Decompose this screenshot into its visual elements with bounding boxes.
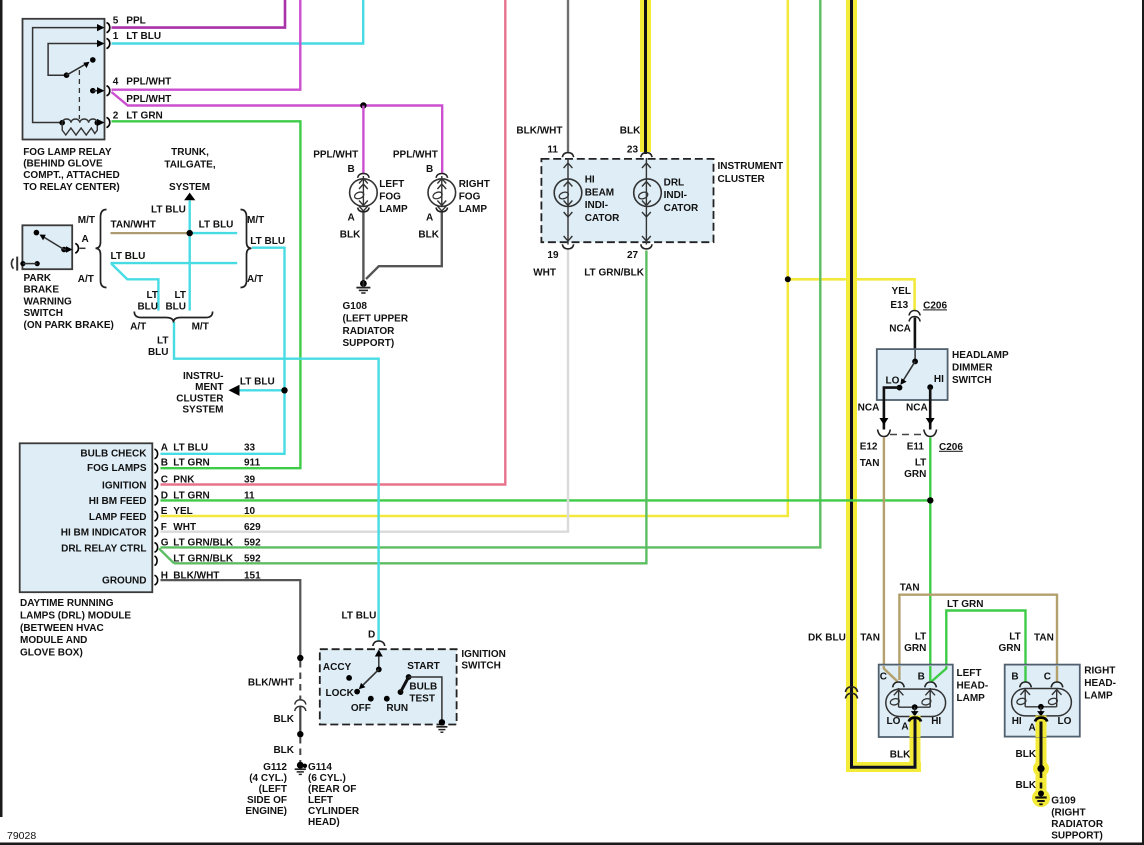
svg-text:629: 629 xyxy=(244,522,261,533)
label HEADLAMP DIMMER SWITCH xyxy=(952,350,1009,386)
ground G109 xyxy=(1035,791,1046,805)
svg-text:PARK: PARK xyxy=(24,273,52,284)
svg-text:LT BLU: LT BLU xyxy=(151,204,186,215)
svg-text:10: 10 xyxy=(244,506,256,517)
wire LT BLU A/T horizontal xyxy=(111,262,238,264)
svg-text:TRUNK,: TRUNK, xyxy=(171,147,209,158)
right headlamp filaments xyxy=(1016,688,1061,717)
arrow to trunk system xyxy=(184,193,195,201)
DRL module left labels xyxy=(61,448,148,586)
label M/T bottom xyxy=(192,322,209,333)
svg-text:YEL: YEL xyxy=(173,506,192,517)
svg-text:(RIGHT: (RIGHT xyxy=(1051,807,1085,818)
ignition switch box xyxy=(320,649,457,724)
label RIGHT HEADLAMP xyxy=(1084,666,1116,702)
wire BLK/WHT vertical to cluster pin 11 xyxy=(567,0,569,153)
svg-text:NCA: NCA xyxy=(858,403,880,414)
inline connector DK BLU xyxy=(845,687,857,699)
svg-text:LT GRN: LT GRN xyxy=(947,599,983,610)
svg-text:INDI-: INDI- xyxy=(585,200,608,211)
svg-text:(LEFT UPPER: (LEFT UPPER xyxy=(343,314,409,325)
svg-text:592: 592 xyxy=(244,538,261,549)
svg-text:OFF: OFF xyxy=(351,703,371,714)
wire BLK thick to cluster pin 23 xyxy=(644,0,647,154)
svg-text:A: A xyxy=(348,212,355,223)
svg-text:TAN/WHT: TAN/WHT xyxy=(111,219,156,230)
svg-text:79028: 79028 xyxy=(7,830,36,842)
svg-text:YEL: YEL xyxy=(892,286,911,297)
svg-text:HI: HI xyxy=(1012,716,1022,727)
svg-text:GROUND: GROUND xyxy=(102,576,146,587)
svg-text:(LEFT: (LEFT xyxy=(259,784,287,795)
DRL module box xyxy=(20,443,153,592)
wire F WHT 629 xyxy=(161,250,569,532)
svg-text:4: 4 xyxy=(113,77,119,88)
svg-text:LOCK: LOCK xyxy=(326,688,355,699)
svg-text:GRN: GRN xyxy=(904,469,926,480)
label BLK right upper xyxy=(1016,749,1037,760)
svg-text:LEFT: LEFT xyxy=(957,668,982,679)
svg-text:RIGHT: RIGHT xyxy=(459,179,490,190)
lamp HI BEAM INDICATOR xyxy=(554,158,582,245)
wire LT GRN to right headlamp xyxy=(932,611,1026,683)
connector C206 E12 arrow xyxy=(878,418,891,437)
svg-text:RADIATOR: RADIATOR xyxy=(343,326,396,337)
svg-text:SWITCH: SWITCH xyxy=(952,375,991,386)
right fog lamp xyxy=(428,174,456,212)
inline connector C206 E13 xyxy=(909,311,920,322)
left brace M/T A/T xyxy=(96,210,107,288)
svg-text:D: D xyxy=(368,629,375,640)
svg-text:A: A xyxy=(1029,722,1036,733)
svg-text:BLK: BLK xyxy=(340,229,361,240)
label TAN/WHT xyxy=(111,219,156,230)
label IGNITION SWITCH xyxy=(461,649,505,672)
ground G108 xyxy=(356,280,370,293)
page right border xyxy=(1142,0,1144,845)
svg-text:HEADLAMP: HEADLAMP xyxy=(952,350,1009,361)
wire PPL/WHT pin 4 to fog lamps xyxy=(112,92,443,174)
junction dot YEL xyxy=(785,276,791,282)
svg-text:BRAKE: BRAKE xyxy=(24,285,60,296)
svg-text:SYSTEM: SYSTEM xyxy=(169,182,210,193)
svg-text:LAMP FEED: LAMP FEED xyxy=(89,512,147,523)
svg-text:INSTRU-: INSTRU- xyxy=(183,371,224,382)
junction dot BLK/WHT xyxy=(297,655,303,661)
svg-text:DRL RELAY CTRL: DRL RELAY CTRL xyxy=(61,543,146,554)
svg-text:CLUSTER: CLUSTER xyxy=(718,174,766,185)
svg-text:B: B xyxy=(426,164,433,175)
wire LT GRN/BLK 592 to pin 27 xyxy=(159,251,646,564)
label HI A LO right headlamp xyxy=(1012,716,1072,733)
relay pin arrows and connector arcs xyxy=(97,23,110,128)
label DK BLU and TAN xyxy=(808,632,880,643)
svg-text:C: C xyxy=(161,475,168,486)
svg-text:E: E xyxy=(161,506,168,517)
right headlamp pin A arc xyxy=(1035,718,1047,722)
svg-text:33: 33 xyxy=(244,443,256,454)
wire NCA to dimmer switch xyxy=(914,318,917,351)
svg-text:CYLINDER: CYLINDER xyxy=(308,806,360,817)
svg-text:TAN: TAN xyxy=(860,632,880,643)
label LT BLU D xyxy=(342,610,377,640)
svg-text:B: B xyxy=(1011,672,1018,683)
svg-text:B: B xyxy=(348,164,355,175)
wire LT GRN from E11 xyxy=(929,438,931,682)
connector C206 E11 arrow xyxy=(924,418,937,437)
svg-text:A: A xyxy=(82,234,89,245)
svg-text:BLK: BLK xyxy=(273,714,294,725)
label A xyxy=(82,234,89,245)
relay coil with resistor xyxy=(59,119,100,135)
right headlamp box xyxy=(1005,665,1080,737)
junction dot LT BLU xyxy=(229,385,288,396)
svg-text:(BETWEEN HVAC: (BETWEEN HVAC xyxy=(20,623,104,634)
label pin 2 LT GRN xyxy=(113,110,163,121)
label G112 caption xyxy=(245,762,287,817)
relay pin 4 internal stub xyxy=(90,88,99,94)
svg-text:H: H xyxy=(161,570,168,581)
svg-text:IGNITION: IGNITION xyxy=(102,480,146,491)
label BLK/WHT xyxy=(248,678,294,689)
DRL module pin row labels xyxy=(161,443,261,582)
wire LT BLU to instrument cluster system arrow xyxy=(238,389,285,391)
svg-text:A: A xyxy=(161,443,168,454)
svg-text:SWITCH: SWITCH xyxy=(24,308,63,319)
svg-text:LT: LT xyxy=(147,290,158,301)
svg-text:WHT: WHT xyxy=(173,522,196,533)
label TAN right headlamp xyxy=(1034,632,1054,643)
label TAN below E12 xyxy=(860,458,880,469)
wire highlight: BLK instrument cluster feed xyxy=(640,0,651,152)
label park brake caption xyxy=(24,273,114,331)
wire LT BLU M/T right xyxy=(190,232,238,234)
svg-text:SUPPORT): SUPPORT) xyxy=(1051,831,1103,842)
svg-text:PNK: PNK xyxy=(173,475,195,486)
left headlamp box xyxy=(879,665,953,737)
wire H BLK/WHT 151 xyxy=(161,580,301,658)
svg-text:LT BLU: LT BLU xyxy=(111,251,146,262)
instrument cluster box xyxy=(541,159,713,242)
label BLK lower xyxy=(273,745,294,756)
inline connector BLK/WHT-BLK xyxy=(295,700,306,711)
svg-text:ENGINE): ENGINE) xyxy=(245,806,287,817)
label M/T right xyxy=(247,215,264,226)
relay K1 fog lamp relay box xyxy=(23,19,105,140)
svg-text:1: 1 xyxy=(113,31,119,42)
svg-text:BLU: BLU xyxy=(165,302,186,313)
lamp DRL INDICATOR xyxy=(634,158,662,245)
svg-text:RADIATOR: RADIATOR xyxy=(1051,819,1104,830)
svg-text:(4 CYL.): (4 CYL.) xyxy=(249,773,287,784)
ignition switch connector arc D xyxy=(373,641,385,646)
svg-text:27: 27 xyxy=(627,250,639,261)
label LEFT HEADLAMP xyxy=(957,668,989,704)
svg-text:LO: LO xyxy=(887,716,901,727)
svg-text:E12: E12 xyxy=(860,441,878,452)
svg-text:PPL: PPL xyxy=(126,15,145,26)
svg-text:DRL: DRL xyxy=(664,177,685,188)
svg-text:HEAD-: HEAD- xyxy=(957,680,989,691)
svg-text:A: A xyxy=(901,722,908,733)
svg-text:BLK: BLK xyxy=(890,750,911,761)
svg-text:CATOR: CATOR xyxy=(664,203,699,214)
svg-text:LT GRN: LT GRN xyxy=(173,491,209,502)
svg-text:SWITCH: SWITCH xyxy=(461,660,500,671)
svg-text:C: C xyxy=(880,672,887,683)
cluster pin arcs top xyxy=(562,153,652,158)
svg-text:C: C xyxy=(1044,672,1051,683)
svg-text:E11: E11 xyxy=(907,441,925,452)
svg-text:LT: LT xyxy=(175,290,186,301)
svg-text:FOG: FOG xyxy=(379,191,401,202)
wire TAN/WHT xyxy=(111,232,190,234)
svg-text:TAN: TAN xyxy=(900,583,920,594)
wire LT BLU pin 1 xyxy=(112,0,364,44)
wire BLK/WHT dashed segment xyxy=(299,661,301,700)
svg-text:BLK/WHT: BLK/WHT xyxy=(248,678,294,689)
svg-text:LT GRN: LT GRN xyxy=(173,458,209,469)
svg-text:C206: C206 xyxy=(923,300,947,311)
label B C right headlamp xyxy=(1011,672,1051,683)
label LO HI dimmer xyxy=(886,374,945,386)
wire dimmer HI output xyxy=(929,387,932,429)
label LT GRN left headlamp xyxy=(904,632,926,654)
svg-text:151: 151 xyxy=(244,570,261,581)
svg-text:DIMMER: DIMMER xyxy=(952,362,993,373)
left headlamp entry wires xyxy=(884,666,947,682)
svg-text:COMPT., ATTACHED: COMPT., ATTACHED xyxy=(23,170,119,181)
svg-text:DK BLU: DK BLU xyxy=(808,632,846,643)
svg-text:PPL/WHT: PPL/WHT xyxy=(313,150,358,161)
svg-text:BLU: BLU xyxy=(137,302,158,313)
svg-text:G108: G108 xyxy=(343,301,368,312)
left headlamp pin A highlight and wire xyxy=(910,716,921,739)
svg-text:39: 39 xyxy=(244,475,256,486)
junction dot PPL/WHT xyxy=(360,102,366,108)
wire TAN to right headlamp xyxy=(898,595,1058,682)
svg-text:FOG LAMPS: FOG LAMPS xyxy=(87,463,147,474)
svg-text:LAMP: LAMP xyxy=(459,204,488,215)
label BLK/WHT BLK pins 11 23 xyxy=(516,126,641,156)
ground G112 xyxy=(295,762,307,775)
right headlamp pin A highlight xyxy=(1036,716,1047,738)
svg-text:HI BM FEED: HI BM FEED xyxy=(89,496,147,507)
label YEL E13 C206 xyxy=(890,286,947,311)
svg-text:HEAD-: HEAD- xyxy=(1084,678,1116,689)
label pins 19 27 WHT LT GRN/BLK xyxy=(533,250,645,278)
label G109 caption xyxy=(1051,796,1104,842)
svg-text:SYSTEM: SYSTEM xyxy=(182,405,223,416)
DRL module pin connector arcs xyxy=(155,449,158,585)
svg-text:(REAR OF: (REAR OF xyxy=(308,784,356,795)
label PPL/WHT lower xyxy=(126,94,171,105)
svg-text:INSTRUMENT: INSTRUMENT xyxy=(718,161,784,172)
ignition bulb test contact bar xyxy=(401,677,409,692)
svg-text:BEAM: BEAM xyxy=(585,187,614,198)
svg-text:LT: LT xyxy=(1009,632,1020,643)
svg-text:A/T: A/T xyxy=(130,322,146,333)
park brake switch contacts xyxy=(34,230,73,253)
svg-text:WARNING: WARNING xyxy=(24,296,73,307)
svg-text:RUN: RUN xyxy=(386,703,408,714)
right headlamp pin arcs B C xyxy=(1020,682,1063,687)
svg-text:A/T: A/T xyxy=(78,274,94,285)
label LT BLU mid xyxy=(199,219,234,230)
wire A LT BLU 33 xyxy=(161,248,285,454)
label TAN upper xyxy=(900,583,920,594)
svg-text:M/T: M/T xyxy=(192,322,209,333)
svg-text:IGNITION: IGNITION xyxy=(461,649,505,660)
svg-text:BLK: BLK xyxy=(620,126,641,137)
svg-text:LT BLU: LT BLU xyxy=(199,219,234,230)
label A/T bottom xyxy=(130,322,146,333)
svg-text:SIDE OF: SIDE OF xyxy=(247,795,287,806)
svg-text:LAMP: LAMP xyxy=(379,204,408,215)
svg-text:LT BLU: LT BLU xyxy=(240,376,275,387)
label NCA NCA bottom xyxy=(858,403,928,414)
wire BLK right headlamp ground xyxy=(1040,722,1043,767)
svg-text:G: G xyxy=(161,538,169,549)
junction dot LT BLU/TAN xyxy=(187,230,193,236)
svg-text:LT GRN/BLK: LT GRN/BLK xyxy=(173,554,234,565)
svg-text:TAN: TAN xyxy=(860,458,880,469)
svg-text:CLUSTER: CLUSTER xyxy=(176,393,224,404)
svg-text:TO RELAY CENTER): TO RELAY CENTER) xyxy=(23,182,120,193)
wire B LT GRN 911 xyxy=(112,121,301,468)
svg-text:BLK: BLK xyxy=(418,229,439,240)
wire highlight: DK BLU main feed xyxy=(846,0,921,772)
svg-text:11: 11 xyxy=(244,491,255,502)
label NCA top xyxy=(889,323,911,334)
left fog lamp xyxy=(350,174,378,212)
ignition switch common arm xyxy=(359,650,383,690)
svg-text:G109: G109 xyxy=(1051,796,1076,807)
svg-text:BLK: BLK xyxy=(273,745,294,756)
svg-text:HEAD): HEAD) xyxy=(308,817,340,828)
svg-text:FOG LAMP RELAY: FOG LAMP RELAY xyxy=(23,147,112,158)
right headlamp entry wires xyxy=(1026,666,1058,682)
wire BLK dashed to G109 xyxy=(1040,772,1043,791)
svg-text:592: 592 xyxy=(244,554,261,565)
svg-text:23: 23 xyxy=(627,144,639,155)
svg-text:LAMP: LAMP xyxy=(1084,691,1113,702)
relay mechanical link dashed xyxy=(78,70,80,119)
svg-text:M/T: M/T xyxy=(78,215,95,226)
label G108 caption xyxy=(343,301,409,349)
left headlamp pin A arc xyxy=(909,718,921,722)
left headlamp filaments xyxy=(890,688,935,717)
headlamp dimmer switch box xyxy=(877,349,948,400)
svg-text:LO: LO xyxy=(1058,716,1072,727)
svg-text:LT: LT xyxy=(915,632,926,643)
svg-text:911: 911 xyxy=(244,458,261,469)
label LT BLU vertical pair xyxy=(137,290,186,313)
label M/T left xyxy=(78,215,95,226)
label pin 5 PPL xyxy=(113,15,146,26)
svg-text:LT GRN/BLK: LT GRN/BLK xyxy=(173,538,234,549)
label HI BEAM INDICATOR xyxy=(585,175,620,224)
ignition switch position contacts xyxy=(346,674,411,702)
wire LT BLU below brace to ignition xyxy=(174,322,379,641)
page bottom border xyxy=(0,843,1144,845)
label left fog lamp B A xyxy=(313,150,408,241)
svg-text:(6 CYL.): (6 CYL.) xyxy=(308,773,346,784)
svg-text:LT BLU: LT BLU xyxy=(250,236,285,247)
park brake switch ground side symbol xyxy=(11,257,39,271)
svg-text:G114: G114 xyxy=(308,762,332,773)
svg-text:NCA: NCA xyxy=(906,403,928,414)
wire dimmer LO output xyxy=(884,388,900,430)
wire BLK solid segment xyxy=(299,707,301,734)
svg-text:BLK: BLK xyxy=(1016,780,1037,791)
bottom underbrace A/T M/T xyxy=(134,312,212,323)
label pin 4 PPL/WHT xyxy=(113,77,172,88)
label INSTRUMENT CLUSTER xyxy=(718,161,784,185)
svg-text:PPL/WHT: PPL/WHT xyxy=(126,94,171,105)
svg-text:LT: LT xyxy=(915,458,926,469)
svg-text:TAN: TAN xyxy=(1034,632,1054,643)
svg-text:START: START xyxy=(407,661,440,672)
label LO A HI left headlamp xyxy=(887,716,942,732)
svg-text:INDI-: INDI- xyxy=(664,190,687,201)
ignition internal ground xyxy=(436,719,447,732)
label LT BLU below brace xyxy=(148,336,169,359)
svg-text:C206: C206 xyxy=(939,442,963,453)
svg-text:2: 2 xyxy=(113,110,119,121)
svg-text:SUPPORT): SUPPORT) xyxy=(343,338,395,349)
svg-text:BLU: BLU xyxy=(148,347,169,358)
wire BLK dashed to ground xyxy=(299,737,301,762)
svg-text:LO: LO xyxy=(886,375,900,386)
svg-text:BULB: BULB xyxy=(409,682,437,693)
right headlamp bulb housing xyxy=(1012,689,1072,716)
svg-text:BULB CHECK: BULB CHECK xyxy=(80,448,147,459)
wire LT BLU trunk system vertical xyxy=(188,201,190,311)
svg-text:LT BLU: LT BLU xyxy=(173,443,208,454)
label G114 caption xyxy=(308,762,360,828)
label BLK left headlamp xyxy=(890,750,911,761)
wire TAN from E12 xyxy=(884,438,898,682)
wire PPL/WHT drop to left fog lamp xyxy=(362,106,364,175)
svg-text:PPL/WHT: PPL/WHT xyxy=(126,77,171,88)
label pin 1 LT BLU xyxy=(113,31,161,42)
junction dot LT GRN xyxy=(927,497,933,503)
wire LT BLU A/T branch down xyxy=(111,264,158,311)
label BLK upper xyxy=(273,714,294,725)
svg-text:GRN: GRN xyxy=(904,643,926,654)
svg-text:B: B xyxy=(918,672,925,683)
svg-text:E13: E13 xyxy=(890,300,908,311)
left headlamp bulb housing xyxy=(886,689,946,716)
svg-text:TEST: TEST xyxy=(409,694,435,705)
svg-text:NCA: NCA xyxy=(889,323,911,334)
svg-text:LAMP: LAMP xyxy=(957,693,986,704)
svg-text:LAMPS (DRL) MODULE: LAMPS (DRL) MODULE xyxy=(20,611,131,622)
wire PPL pin 5 xyxy=(112,0,286,28)
wire PNK vertical xyxy=(161,0,506,485)
relay switch contacts xyxy=(64,57,96,78)
svg-text:WHT: WHT xyxy=(533,267,556,278)
svg-text:LEFT: LEFT xyxy=(379,179,404,190)
label E12 E11 C206 xyxy=(860,441,964,453)
svg-text:A/T: A/T xyxy=(247,274,263,285)
svg-text:HI BM INDICATOR: HI BM INDICATOR xyxy=(61,528,148,539)
svg-text:LT BLU: LT BLU xyxy=(126,31,161,42)
svg-text:G112: G112 xyxy=(263,762,287,773)
svg-text:M/T: M/T xyxy=(247,215,264,226)
label right fog lamp B A xyxy=(393,150,490,241)
